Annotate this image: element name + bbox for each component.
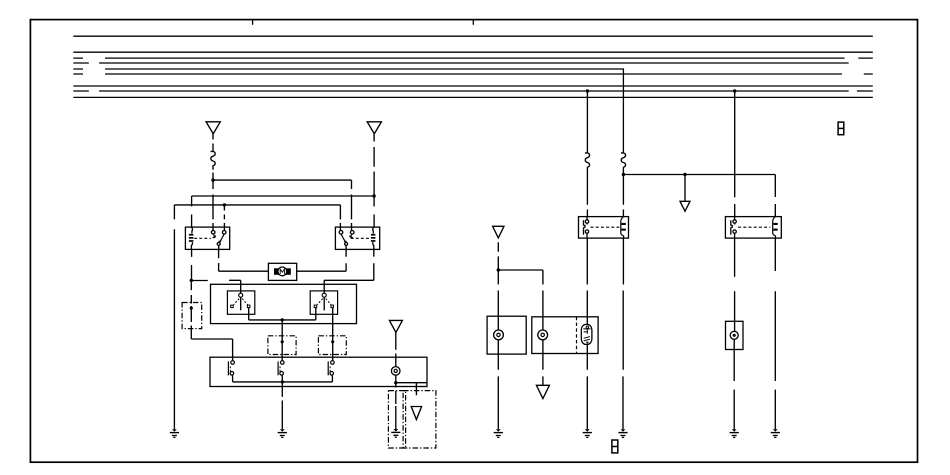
wire stub right of node B: [191, 280, 208, 282]
ground G7: [771, 429, 780, 437]
node fuse F1 output: [211, 178, 214, 181]
washer motor box (left): [487, 316, 526, 354]
wire internal bus linking SW1-SW3: [233, 381, 333, 383]
wire node E down to ground G3: [395, 383, 397, 429]
wiper/washer switch assembly box: [211, 284, 357, 323]
wire from bus node x=735 down to relay R2: [734, 91, 736, 217]
power arrow A6 (washer supply): [493, 226, 504, 238]
wire relay R1 coil to ground G8: [622, 238, 624, 429]
wiper motor M1: [268, 263, 296, 280]
terminal node in CB2: [281, 340, 284, 343]
node F on fuse F3 output: [622, 173, 625, 176]
wire bus line 1: [73, 35, 873, 37]
wire bus line 5 (turns down to fuse column): [73, 69, 623, 153]
wire H4: node F to relay R2 coil column: [623, 175, 775, 217]
wire bus line 3: [73, 57, 873, 59]
connector CB5 (dash-dot box): [403, 391, 436, 448]
wire node H3 down to relay W1 second contact: [223, 205, 225, 231]
wire relay W1 common to wiper motor: [219, 249, 269, 271]
fuse F3: [621, 153, 626, 168]
washer/wiper unit box (middle): [532, 317, 598, 354]
wire fuse F2 to relay R1: [586, 168, 588, 217]
node D on internal bus: [281, 380, 284, 383]
ground G4: [494, 429, 503, 437]
wire from arrow A1 to fuse F1 (dashed): [212, 134, 214, 152]
relay W2 (windshield wiper relay, right): [335, 227, 379, 249]
connector CB2 (dash-dot box): [268, 336, 296, 355]
wire H1: node to right relay contact column: [213, 180, 352, 231]
wire stub to switch S1 pole: [229, 280, 241, 293]
wire fuse F1 to node: [212, 167, 214, 181]
relay R2 (mist relay): [725, 217, 781, 239]
wire relay W1 coil to node B (dashed): [191, 249, 193, 280]
wire branch down to arrow A4: [415, 383, 417, 396]
wire node E to box right edge: [396, 382, 427, 384]
wire H5: node H to x=543 column: [498, 270, 543, 330]
node on H3 branching to relay W1 contact: [223, 203, 226, 206]
connector CB4 (dash-dot box): [388, 391, 405, 448]
wire washer motor to ground G4: [497, 340, 499, 430]
switch S1 (inner box left): [227, 291, 254, 314]
tick mark right on top border: [472, 20, 474, 25]
arrow A5 (down arrow): [680, 201, 690, 211]
ground G3: [391, 429, 400, 437]
wire relay R1 contact through capsule to ground G5: [586, 238, 588, 429]
arrow A7 (down arrow): [536, 385, 549, 398]
wire S2 right contact down through connector CB3 to switch SW3: [332, 308, 334, 361]
fluid level sensor box: [726, 321, 744, 349]
washer motor W (circle): [494, 330, 504, 340]
wire node D to ground G2: [281, 382, 283, 429]
wire wiper motor to relay W2 common: [297, 249, 346, 271]
wire fuse F3 to relay R1 coil: [622, 168, 624, 217]
node C on S1-S2 link: [281, 318, 284, 321]
wire bus line 2: [73, 51, 873, 53]
node on bus line 8 at x=587: [586, 89, 589, 92]
wire node C down through connector CB2 to switch SW2: [281, 320, 283, 361]
wire arrow A3 to sensor L1 (dashed): [395, 332, 397, 366]
fuse F1: [211, 151, 216, 166]
wire from node down to relay W1 contact: [212, 180, 214, 231]
wire from node H2 down to relay W2 coil: [373, 196, 375, 227]
switch S2 (inner box right): [310, 291, 337, 314]
wire far-left vertical down to ground G1: [173, 205, 175, 429]
connector index C1: [838, 122, 844, 135]
ground G5: [583, 429, 592, 437]
ground G2: [278, 429, 287, 437]
power arrow A2 (right, supply triangle): [367, 122, 381, 134]
wire H2: relay W1 coil to relay W2 coil: [192, 196, 375, 227]
terminal node in CB1: [190, 307, 193, 310]
ground G8: [618, 429, 627, 437]
node H: [497, 268, 500, 271]
power arrow A3 (above washer sensor): [389, 320, 402, 332]
terminal node in CB3: [331, 340, 334, 343]
fluid level sensor (circle with dot): [730, 331, 738, 339]
switch SW3: [328, 361, 334, 382]
dashed divider in middle box: [576, 317, 578, 354]
wire from bus node x=587 down to fuse F2: [586, 91, 588, 153]
wire arrow A6 to node H (dashed): [497, 242, 499, 270]
ground G6: [730, 429, 739, 437]
node on bus line 8 at x=735: [733, 89, 736, 92]
wire bus line 8: [73, 90, 873, 92]
tick mark left on top border: [252, 20, 254, 25]
control unit box (bottom): [210, 357, 427, 386]
power arrow A1 (left, supply triangle): [206, 122, 220, 134]
wire bus line 7: [73, 85, 873, 87]
node on coil wire of relay W2: [372, 194, 375, 197]
connector index C2: [612, 440, 618, 453]
node E: [394, 381, 397, 384]
wire bus line 4: [73, 62, 848, 64]
wire relay R2 coil to ground G7: [774, 238, 776, 429]
breaker capsule in middle box: [581, 324, 592, 344]
sensor L1 (circle): [391, 367, 400, 376]
switch SW1: [228, 361, 234, 382]
fuse F2: [585, 153, 590, 168]
wire relay W2 coil down and left to switch S2 pole: [324, 249, 374, 293]
wire node G to arrow A5: [684, 175, 686, 201]
wire bus line 9: [73, 96, 873, 98]
relay W1 (windshield wiper relay, left): [185, 227, 229, 249]
connector CB1 (dash-dot box): [182, 303, 202, 329]
wire pump motor to arrow A7: [542, 340, 544, 386]
arrow A4 (down arrow in connector): [411, 407, 421, 420]
relay R1 (intermittent relay): [579, 217, 629, 239]
node G on wire H4: [683, 173, 686, 176]
ground G1: [170, 429, 179, 437]
switch SW2: [278, 361, 284, 382]
wire bus line 6: [73, 73, 873, 75]
wire H3: far-left run to relay contacts: [174, 205, 340, 231]
wire sensor to ground G6: [733, 339, 735, 429]
wire from arrow A2 down to node H2 (dashed): [373, 134, 375, 196]
pump motor P (circle): [538, 330, 548, 340]
node B: [190, 279, 193, 282]
wire sensor L1 to node E: [395, 375, 397, 383]
wire node H down into washer motor box: [497, 270, 499, 330]
wire node B down through connector CB1: [191, 282, 232, 360]
wire relay R2 contact down to sensor box: [734, 238, 736, 331]
connector CB3 (dash-dot box): [318, 336, 346, 355]
wire S1 contact to S2 contact: [249, 308, 316, 320]
